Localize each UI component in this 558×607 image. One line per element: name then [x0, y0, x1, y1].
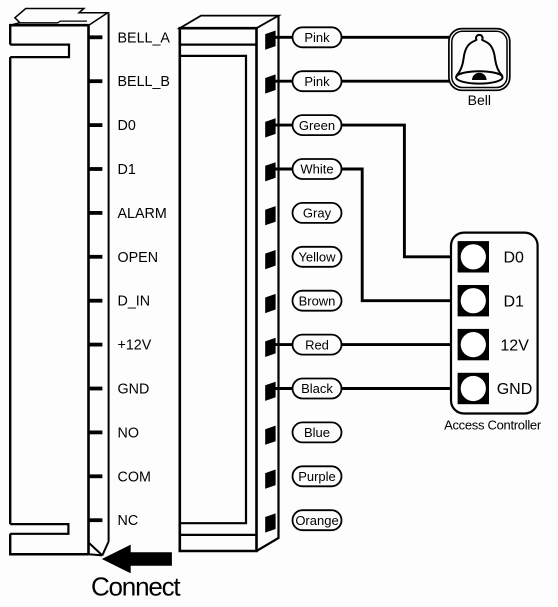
svg-text:Connect: Connect [91, 571, 181, 601]
svg-text:NC: NC [118, 513, 139, 529]
svg-text:Access Controller: Access Controller [444, 417, 542, 432]
svg-text:GND: GND [497, 381, 533, 398]
svg-text:Green: Green [299, 118, 335, 133]
svg-text:Pink: Pink [304, 74, 330, 89]
svg-text:+12V: +12V [118, 338, 152, 354]
svg-text:Orange: Orange [295, 513, 338, 528]
svg-text:Blue: Blue [304, 425, 330, 440]
svg-text:Black: Black [301, 381, 333, 396]
svg-text:COM: COM [118, 469, 151, 485]
svg-text:White: White [300, 162, 333, 177]
svg-text:Pink: Pink [304, 30, 330, 45]
svg-text:OPEN: OPEN [118, 250, 159, 266]
svg-text:Gray: Gray [303, 206, 332, 221]
svg-text:ALARM: ALARM [118, 206, 167, 222]
svg-text:D_IN: D_IN [118, 294, 151, 310]
svg-text:Bell: Bell [468, 92, 491, 108]
svg-text:Brown: Brown [299, 293, 336, 308]
svg-text:BELL_B: BELL_B [118, 74, 170, 90]
svg-text:Yellow: Yellow [298, 250, 336, 265]
svg-text:12V: 12V [500, 337, 529, 354]
svg-text:D0: D0 [118, 118, 136, 134]
svg-text:D0: D0 [504, 250, 525, 267]
svg-text:GND: GND [118, 382, 150, 398]
svg-text:NO: NO [118, 425, 139, 441]
svg-text:D1: D1 [118, 162, 136, 178]
svg-text:D1: D1 [504, 293, 525, 310]
svg-text:Purple: Purple [298, 469, 336, 484]
svg-text:BELL_A: BELL_A [118, 30, 171, 46]
svg-text:Red: Red [305, 337, 329, 352]
